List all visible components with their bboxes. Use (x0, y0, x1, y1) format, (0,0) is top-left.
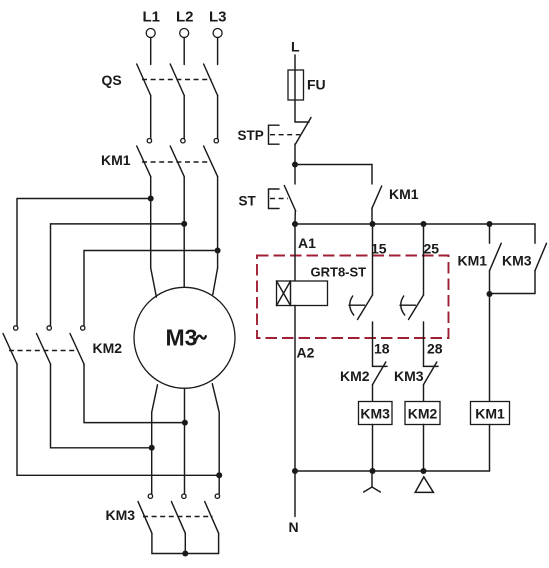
wire KM1 pole1 down (150, 177, 152, 268)
svg-text:KM3: KM3 (106, 507, 136, 523)
svg-text:N: N (289, 519, 299, 535)
svg-text:KM1: KM1 (101, 152, 131, 168)
wire QS pole3 to KM1 (217, 96, 219, 139)
svg-text:KM3: KM3 (394, 368, 424, 384)
wire KM2 pole2 to motor lead U (51, 364, 152, 448)
star symbol (364, 475, 381, 493)
svg-text:A2: A2 (297, 345, 315, 361)
svg-text:25: 25 (424, 241, 440, 257)
node after STP (292, 162, 298, 168)
svg-text:ST: ST (239, 194, 257, 209)
svg-text:A1: A1 (298, 235, 316, 251)
node 15 bus (370, 221, 376, 227)
wire tap2 to KM2 pole2 (51, 224, 185, 326)
contact KM1 auxiliary (seal-in) (372, 165, 419, 225)
motor top lead 3 (213, 268, 218, 295)
wire KM3 star bus (152, 533, 219, 553)
wire KM1 pole2 down (183, 177, 185, 288)
svg-text:KM2: KM2 (93, 340, 123, 356)
motor bottom lead V (184, 388, 186, 493)
contact KM3 aux (490, 224, 547, 294)
wire A2 down to N bus (294, 306, 296, 472)
svg-text:15: 15 (371, 241, 387, 257)
fuse FU (288, 70, 326, 100)
wire tap1 to KM2 pole1 (17, 199, 151, 326)
svg-text:18: 18 (374, 341, 390, 357)
motor bottom lead W (212, 384, 219, 494)
node 25 bus (421, 221, 427, 227)
svg-text:KM1: KM1 (389, 186, 419, 202)
wire N bus (295, 470, 490, 472)
timed contact 25-28 (400, 224, 424, 366)
node phase3 tap (215, 248, 221, 254)
svg-text:KM2: KM2 (340, 368, 370, 384)
wire KM3 coil to N bus (372, 425, 374, 472)
timed contact 15-18 (349, 224, 373, 366)
wire L to FU (294, 55, 296, 70)
contact KM2 NC interlock (340, 362, 387, 402)
wire STP to node (294, 144, 296, 165)
node star point (182, 551, 188, 557)
svg-text:L1: L1 (143, 9, 161, 26)
svg-text:M3: M3 (166, 325, 198, 351)
wire KM2 coil to N bus (423, 425, 425, 472)
wire to N (294, 471, 296, 517)
node phase1 tap (148, 196, 154, 202)
svg-text:KM3: KM3 (360, 406, 390, 422)
terminal L3 (209, 9, 227, 38)
svg-text:GRT8-ST: GRT8-ST (311, 265, 367, 280)
contactor KM3 main contacts (106, 494, 220, 533)
svg-text:FU: FU (307, 77, 326, 93)
node phase2 tap (181, 221, 187, 227)
wire KM3 pole2 to star point (184, 533, 186, 553)
wire node to KM1 aux branch (295, 164, 372, 166)
wire L1 to QS (150, 38, 152, 65)
node N bus left (292, 468, 298, 474)
contactor KM2 main contacts (3, 326, 122, 364)
svg-text:QS: QS (102, 72, 122, 88)
node motor lead V / KM2-3 junction (182, 420, 188, 426)
node N bus delta (421, 468, 427, 474)
coil KM3 (359, 402, 393, 425)
disconnect switch QS (102, 64, 218, 96)
coil KM2 (405, 402, 440, 425)
node aux contacts join (487, 291, 493, 297)
wire KM2 pole3 to motor lead V (84, 364, 185, 423)
svg-text:L2: L2 (176, 9, 194, 26)
terminal L1 (143, 9, 161, 38)
svg-text:KM2: KM2 (408, 406, 438, 422)
motor bottom lead U (152, 385, 158, 494)
pushbutton ST (NO) (239, 165, 296, 225)
wire KM1 pole3 down (217, 177, 219, 268)
wire A1 to timer coil (294, 224, 296, 281)
svg-text:KM3: KM3 (502, 253, 532, 269)
pushbutton STP (NC) (238, 118, 312, 145)
timer coil U1 (277, 281, 328, 306)
wire aux join to KM1 coil (489, 294, 491, 402)
wire KM2 pole1 to motor lead W (17, 364, 219, 475)
node N bus star (370, 468, 376, 474)
svg-text:KM1: KM1 (458, 253, 488, 269)
wire tap3 to KM2 pole3 (84, 251, 218, 326)
node motor lead U / KM2-2 junction (149, 445, 155, 451)
wire QS pole2 to KM1 (183, 96, 185, 139)
terminal L2 (176, 9, 194, 38)
motor M3~ (134, 287, 235, 388)
node motor lead W / KM2-1 junction (216, 472, 222, 478)
wire FU to STP (294, 100, 296, 122)
motor top lead 1 (151, 268, 157, 297)
wire KM1 coil to N bus (489, 425, 491, 472)
node A1 bus (292, 221, 298, 227)
wire QS pole1 to KM1 (150, 96, 152, 139)
contact KM3 NC interlock (394, 362, 438, 402)
svg-text:L: L (291, 39, 300, 55)
wire L3 to QS (217, 38, 219, 65)
svg-text:28: 28 (427, 341, 443, 357)
svg-text:L3: L3 (209, 9, 227, 26)
svg-text:KM1: KM1 (475, 406, 505, 422)
wire L2 to QS (183, 38, 185, 65)
contactor KM1 main contacts (101, 139, 219, 177)
node KM1-branch bus (487, 221, 493, 227)
timer GRT8-ST enclosure (257, 256, 449, 339)
contact KM1 aux (run) (458, 224, 502, 294)
svg-text:STP: STP (238, 128, 264, 143)
delta symbol (415, 477, 433, 493)
wire control bus (295, 223, 535, 225)
coil KM1 (471, 402, 510, 425)
